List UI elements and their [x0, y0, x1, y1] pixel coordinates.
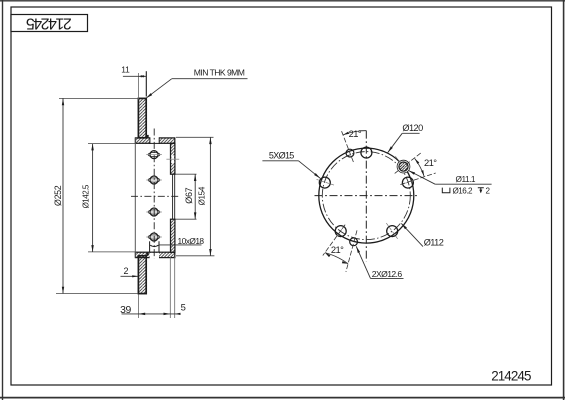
angular dim 21 top: landing line — [359, 130, 366, 132]
dimension D154 extension top — [176, 136, 214, 138]
hole G lower-left (D15) — [335, 225, 346, 238]
hole gap in hat top wall — [150, 137, 159, 144]
hole D right-upper (D15) — [401, 177, 416, 188]
dimension D252 extension bottom — [56, 293, 138, 295]
bolt hole gap centerline — [166, 158, 179, 160]
angular dim 21 bottom: arrow left — [325, 253, 331, 258]
ring-to-hat neck step bottom — [146, 253, 148, 256]
dimension 11 extension right — [145, 71, 147, 96]
hole C crosshatched (D11.1) — [399, 162, 408, 171]
page scan edge right — [563, 0, 565, 400]
ring-to-hat neck step top — [146, 135, 148, 138]
angular dim 21 right: radial line through hole D — [401, 173, 436, 185]
dimension D67 arrow top — [194, 174, 197, 181]
dimension 39 arrow left — [138, 313, 145, 316]
bolt hole circle 1 in section — [146, 151, 162, 159]
dimension D154 arrow top — [209, 137, 212, 144]
leader 5XD15 — [262, 160, 298, 162]
dimension D154 line — [209, 137, 211, 256]
hat face wall lower section (hatched) — [171, 219, 175, 252]
angular dim 21 bottom: radial line through hole G — [323, 225, 345, 256]
flange outer circle — [319, 148, 414, 243]
centre bore edge line 1 — [172, 174, 174, 219]
dimension 2 line — [121, 275, 139, 277]
hole H far-left (D15) — [317, 177, 335, 188]
dimension 39-5 extension at ring — [137, 295, 139, 319]
dimension D154 extension bottom — [176, 255, 214, 257]
centre bore edge line 2 — [174, 174, 176, 219]
svg-text:214245: 214245 — [491, 368, 531, 383]
dimension D142.5 line — [92, 144, 94, 252]
svg-text:Ø120: Ø120 — [402, 123, 423, 133]
svg-text:Ø16.2: Ø16.2 — [453, 187, 474, 196]
svg-text:MIN THK 9MM: MIN THK 9MM — [194, 68, 245, 78]
dimension 11 arrows — [138, 75, 144, 77]
bolt hole circle 2 in section — [146, 176, 162, 184]
hole gap in hat bottom wall — [150, 253, 159, 259]
svg-text:39: 39 — [120, 305, 131, 316]
bolt circle (dash-dot) — [322, 152, 410, 240]
hole B top (D15) — [361, 147, 372, 158]
hat face wall upper section (hatched) — [171, 143, 175, 174]
friction ring top section (hatched) — [138, 98, 146, 137]
hole E lower-right (D15) — [386, 223, 398, 239]
label 10xD18 leader line — [159, 244, 202, 246]
angular dim 21 bottom: arrow right — [342, 261, 348, 264]
dimension D67 line — [194, 174, 196, 219]
hole F small bottom (D12.6) — [350, 238, 358, 246]
dimension 39 line — [122, 313, 181, 315]
bolt hole circle 3 in section — [146, 208, 162, 216]
angular dim 21 right: radial line through hole C — [395, 152, 423, 174]
dimension D154 arrow bottom — [209, 249, 212, 256]
horizontal centerline — [315, 195, 420, 197]
dimension D142.5 arrow bottom — [91, 245, 94, 252]
hole 4 far-side arc — [150, 245, 158, 246]
hole C tangential centermark — [395, 156, 400, 163]
svg-text:5: 5 — [181, 301, 186, 312]
svg-text:Ø142.5: Ø142.5 — [82, 184, 91, 208]
hat top wall section (hatched strip) — [135, 138, 174, 143]
svg-text:Ø67: Ø67 — [184, 187, 194, 203]
leader D120 — [402, 132, 419, 134]
dimension D252 arrow bottom — [62, 287, 64, 294]
leader 2XD12.6 — [356, 246, 370, 278]
svg-text:214245: 214245 — [26, 15, 72, 32]
dimension D252 arrow top — [62, 98, 64, 105]
dimension D142.5 extension bottom — [88, 251, 135, 253]
depth symbol — [478, 188, 484, 193]
dimension 5 arrow — [175, 313, 181, 315]
svg-text:2: 2 — [123, 266, 128, 276]
hole A small top-left (D12.6) — [346, 149, 354, 157]
angular dim 21 right: arrow top — [415, 159, 420, 165]
dimension D67 extension bottom — [176, 218, 197, 220]
dimension 39 arrow right — [164, 313, 171, 316]
svg-text:21°: 21° — [331, 244, 344, 255]
leader D112 — [401, 223, 423, 246]
svg-text:21°: 21° — [349, 128, 362, 139]
dimension 2 arrow — [132, 275, 138, 277]
angular dim 21 bottom: arc — [325, 253, 348, 264]
dimension D67 arrow bottom — [194, 212, 197, 219]
bolt hole row centerline (vertical dash-dot) — [153, 129, 155, 259]
dimension 39-5 extension at face front — [169, 257, 171, 319]
svg-text:Ø154: Ø154 — [197, 186, 206, 205]
friction ring bottom section (hatched) — [138, 256, 146, 294]
main axis centerline (horizontal dash-dot) — [131, 195, 178, 197]
svg-text:Ø252: Ø252 — [53, 185, 63, 206]
svg-text:2: 2 — [486, 187, 491, 196]
hat bottom wall section (hatched strip) — [135, 252, 174, 257]
dimension D142.5 arrow top — [91, 144, 94, 151]
dimension 11 line — [123, 75, 146, 77]
vertical centerline — [365, 131, 367, 262]
counterbore symbol — [442, 188, 450, 193]
svg-text:10xØ18: 10xØ18 — [178, 236, 205, 246]
dimension D252 line — [62, 98, 64, 293]
angular dim 21 top: arrow on radial — [343, 132, 349, 135]
bolt hole circle 4 in section — [146, 233, 162, 241]
angular dim 21 bottom: radial line through hole F — [346, 230, 357, 272]
angular dim 21 right: arc — [415, 159, 424, 177]
page scan edge bottom — [0, 397, 565, 399]
leader D11.1 — [409, 171, 436, 185]
angular dim 21 top: arc — [343, 131, 366, 135]
dimension D67 extension top — [176, 173, 197, 175]
dimension D142.5 extension top — [88, 143, 135, 145]
svg-text:Ø112: Ø112 — [424, 238, 444, 248]
leader MIN THK 9MM horizontal — [172, 78, 248, 80]
bolt hole gap in face wall — [171, 155, 174, 163]
leader MIN THK 9MM diagonal — [146, 79, 172, 99]
svg-text:5XØ15: 5XØ15 — [269, 151, 294, 161]
svg-text:11: 11 — [121, 65, 130, 75]
angular dim 21 right: arrow bottom — [421, 170, 424, 176]
svg-text:Ø11.1: Ø11.1 — [456, 174, 476, 184]
title box top-left — [11, 15, 88, 32]
angular dim 21 top: radial line through hole A — [341, 130, 353, 162]
svg-text:21°: 21° — [424, 157, 437, 168]
dimension D252 extension top — [59, 97, 138, 99]
svg-text:2XØ12.6: 2XØ12.6 — [372, 269, 403, 279]
hat rim edge line — [134, 138, 136, 257]
page scan edge top — [0, 0, 565, 2]
leader MIN THK 9MM arrow — [146, 93, 152, 98]
hole C counterbore circle (D16.2) — [397, 160, 410, 173]
dimension 39-5 extension at face back — [174, 257, 176, 319]
dimension 11 extension left — [137, 73, 139, 100]
page scan edge left — [2, 0, 4, 400]
